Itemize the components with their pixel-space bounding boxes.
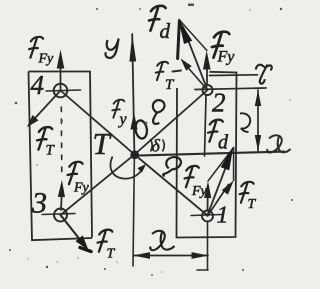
force F_T at 4 (down-left) (31, 91, 61, 123)
dashed drop line from 4 to F_Fy arrow of 3 (60, 107, 63, 176)
label O (134, 120, 148, 140)
force F_T at 2 (up-left) (184, 63, 208, 90)
torque arc T (110, 157, 143, 179)
x axis (137, 152, 284, 156)
svg-text:T: T (107, 247, 116, 262)
svg-text:y: y (118, 111, 128, 128)
force F_T at 3 (down-right, heavy) (61, 215, 84, 244)
radius line O to point 3 (61, 155, 135, 216)
rotation hook near Fd (240, 113, 250, 132)
label F_Fy at 2 (212, 32, 229, 58)
right bracket rectangle around points 2 and 1 (177, 72, 237, 238)
angle delta mark (150, 139, 152, 152)
svg-text:4: 4 (31, 70, 45, 100)
force F_Fy at 3 (up) (60, 194, 63, 210)
label F_d at 2 (149, 6, 166, 31)
force F_Fy at 4 (up) (60, 62, 62, 90)
label gamma (script) (256, 65, 272, 84)
label F_T at 1 (240, 182, 254, 203)
label F_T at 4 (37, 127, 52, 150)
svg-text:Fy: Fy (38, 52, 55, 67)
force F_T at 1 (up-right) (208, 185, 229, 217)
label F_Fy at 4 (29, 37, 43, 58)
node 2 (203, 85, 213, 95)
node 3 (54, 209, 67, 222)
label F_Fy at 3 (68, 162, 83, 184)
node 2 level line (195, 88, 266, 90)
svg-text:d: d (160, 19, 171, 43)
node 4 tick (46, 90, 81, 91)
parallelogram sides at 1 (233, 148, 235, 181)
node 1 tick (191, 215, 222, 216)
label F_Fy at 1 (185, 166, 199, 187)
svg-text:T: T (248, 197, 257, 212)
force F_Fy at 1 (up) (207, 196, 209, 210)
label F_d at 1 (208, 120, 223, 142)
dimension line x (bottom) (134, 255, 209, 257)
gamma reference line (210, 74, 258, 77)
label F_T at 3 (98, 230, 113, 252)
radius line O to point 1 (135, 155, 208, 216)
vertical dimension line (right) (257, 90, 259, 151)
svg-text:d: d (218, 132, 229, 154)
script x label bottom (150, 231, 174, 251)
angle phi mark upper (script) (153, 100, 165, 124)
angle phi mark lower (script) (163, 157, 181, 176)
svg-text:Fy: Fy (217, 49, 236, 66)
svg-text:δ: δ (152, 136, 161, 156)
y axis (132, 34, 134, 155)
resultant F_d at 2 (heavy up-left) (183, 27, 208, 90)
svg-text:2: 2 (212, 88, 226, 118)
left bracket rectangle around points 4 and 3 (29, 72, 93, 241)
script x label right (267, 135, 290, 153)
svg-text:3: 3 (31, 187, 47, 220)
drop line below 1 (207, 222, 209, 271)
radius line O to point 4 (61, 91, 135, 155)
drop line from 2 to x axis (205, 96, 207, 157)
center node O (130, 150, 139, 159)
force F_y on y axis (130, 113, 137, 130)
node 3 tick (42, 214, 75, 215)
svg-text:1: 1 (217, 203, 229, 229)
label F_y (112, 100, 124, 118)
label F_T at 2 with tick (156, 62, 168, 80)
svg-text:Fy: Fy (191, 184, 208, 199)
parallelogram sides at 2 (179, 20, 207, 51)
radius line O to point 2 (135, 90, 208, 155)
node 1 (202, 211, 213, 222)
node 4 (54, 84, 68, 98)
svg-text:T: T (93, 126, 113, 161)
resultant F_d at 1 (heavy up) (208, 164, 228, 215)
svg-text:Fy: Fy (73, 181, 90, 196)
label y (script) (105, 39, 118, 58)
force F_Fy at 2 (up) (206, 66, 208, 85)
